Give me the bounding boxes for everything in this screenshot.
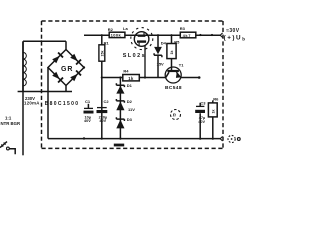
svg-text:11V: 11V <box>128 107 135 112</box>
zener chain column <box>119 78 121 139</box>
svg-text:D3: D3 <box>127 117 133 122</box>
svg-text:C3: C3 <box>200 100 206 105</box>
ground bar below rail <box>114 144 124 147</box>
node feedthrough left top <box>40 40 42 42</box>
svg-text:La: La <box>123 26 128 31</box>
svg-text:R3: R3 <box>180 26 186 31</box>
resistor R3 <box>180 32 196 38</box>
svg-text:1k: 1k <box>211 110 215 114</box>
zener D1 <box>116 83 124 87</box>
wire top rail <box>84 34 221 36</box>
svg-text:R2: R2 <box>108 27 114 32</box>
wire collector row <box>102 77 199 79</box>
svg-text:≈30V: ≈30V <box>226 28 240 34</box>
resistor R4 <box>123 75 140 81</box>
node C2 bottom <box>101 138 103 140</box>
wire lamp to collector row <box>144 45 146 77</box>
svg-text:C1: C1 <box>85 99 91 104</box>
resistor R1 <box>101 35 103 138</box>
svg-text:D4: D4 <box>161 41 167 46</box>
svg-text:n: n <box>173 113 176 119</box>
node after R3 <box>199 34 201 36</box>
node R6 bottom <box>212 138 214 140</box>
svg-text:4k7: 4k7 <box>183 33 192 38</box>
svg-text:GR: GR <box>61 66 73 73</box>
bridge rectifier GR B80C1500 <box>48 50 84 86</box>
bridge diode bottom-right <box>70 70 81 81</box>
zener diode D4 <box>157 35 159 77</box>
node bridge right corner <box>83 66 85 68</box>
node emitter end <box>198 76 201 79</box>
node C1 bottom <box>83 137 85 139</box>
terminal bottom right <box>228 135 235 142</box>
resistor R6 <box>212 100 214 138</box>
svg-text:R1: R1 <box>104 40 110 45</box>
svg-text:R6: R6 <box>213 97 219 102</box>
node before terminal <box>211 34 213 36</box>
node R5 top <box>170 34 172 36</box>
resistor R2 <box>109 32 125 37</box>
bridge diode bottom-left <box>52 71 63 82</box>
svg-text:15V: 15V <box>157 61 164 66</box>
node D4 top <box>157 34 159 36</box>
mains plug symbol <box>0 142 7 148</box>
node collector junction <box>101 76 103 78</box>
resistor R5 <box>171 35 173 71</box>
svg-text:B80C1500: B80C1500 <box>45 101 80 107</box>
svg-text:40V: 40V <box>99 119 106 123</box>
lamp La <box>134 32 149 47</box>
node R1 top <box>101 34 103 36</box>
node feedthrough left bottom <box>40 91 42 93</box>
svg-text:(+)U: (+)U <box>224 34 242 41</box>
svg-text:b: b <box>242 36 245 41</box>
svg-text:SL02s: SL02s <box>123 53 146 59</box>
enclosure dashed box <box>42 21 224 148</box>
transistor T1 BC548 <box>165 67 181 83</box>
svg-text:C2: C2 <box>104 99 110 104</box>
svg-text:100k: 100k <box>111 33 122 38</box>
svg-text:1k: 1k <box>170 51 174 55</box>
svg-text:40V: 40V <box>84 119 91 123</box>
wire plug hook <box>9 149 15 155</box>
node C3 bottom <box>199 138 201 140</box>
svg-text:1k: 1k <box>128 76 134 81</box>
svg-text:15k: 15k <box>100 51 104 57</box>
svg-text:40V: 40V <box>198 120 205 124</box>
capacitor C1 <box>87 104 89 108</box>
capacitor C3 <box>199 103 201 139</box>
bridge diode top-right <box>70 53 81 64</box>
wire secondary top to bridge <box>23 41 66 50</box>
feedthrough top right <box>220 33 222 38</box>
svg-text:BC548: BC548 <box>165 85 182 91</box>
zener D3 <box>116 117 124 121</box>
transformer Tr winding <box>22 41 24 91</box>
svg-text:1:1: 1:1 <box>5 116 12 121</box>
feedthrough bottom right <box>220 136 222 141</box>
svg-text:D2: D2 <box>127 99 133 104</box>
svg-text:T1: T1 <box>179 63 184 68</box>
svg-text:R4: R4 <box>123 69 129 74</box>
svg-text:D1: D1 <box>127 83 133 88</box>
bridge diode top-left <box>52 52 63 63</box>
capacitor C2 <box>97 107 107 109</box>
reference bubble <box>171 110 181 120</box>
wire secondary bottom to bridge <box>18 86 72 92</box>
svg-text:NTR BGR: NTR BGR <box>1 121 21 126</box>
svg-text:R5: R5 <box>174 39 180 44</box>
zener D2 <box>116 99 124 103</box>
svg-text:120mA: 120mA <box>24 101 40 106</box>
wire minus rail (left vertical + bottom rail) <box>48 68 221 139</box>
node zener chain bottom <box>119 138 121 140</box>
